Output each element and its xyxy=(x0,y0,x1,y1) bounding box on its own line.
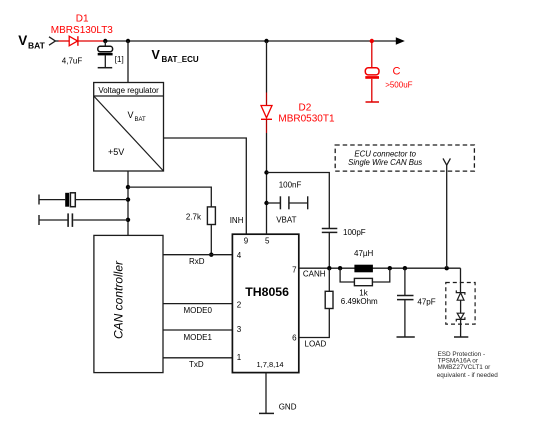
ground bar under ESD xyxy=(454,336,468,338)
svg-text:+5V: +5V xyxy=(108,147,124,157)
label node VBAT_ECU xyxy=(152,48,199,64)
svg-text:Voltage regulator: Voltage regulator xyxy=(98,86,159,95)
wire TH8056 to ground xyxy=(265,373,267,413)
svg-text:TxD: TxD xyxy=(189,360,204,369)
capacitor C_filter1 (polarized) xyxy=(65,193,128,207)
label regulator VBAT pin xyxy=(128,110,147,123)
junction dot VBAT chip node at 100nF xyxy=(264,201,268,205)
label RxD xyxy=(189,257,205,266)
resistor 1k parallel path xyxy=(340,268,354,282)
junction dot VBAT chip node upper xyxy=(264,170,268,174)
ground bar GND xyxy=(259,412,274,414)
wire regulator right output to INH xyxy=(164,138,247,234)
wire D2 to pin5 line xyxy=(266,119,268,234)
wire load resistor to LOAD pin xyxy=(299,309,330,338)
label D2 designator xyxy=(299,103,312,114)
wire CANH corner to ESD xyxy=(460,268,462,292)
capacitor C_filter2 left terminal xyxy=(39,215,68,225)
label GND xyxy=(279,403,297,412)
label D1 value MBRS130LT3 xyxy=(51,25,114,36)
capacitor C_filter1 left terminal xyxy=(39,195,65,205)
node VBAT port label xyxy=(18,33,45,50)
svg-text:MODE0: MODE0 xyxy=(184,306,213,315)
label C designator xyxy=(393,66,401,78)
label 1k value xyxy=(359,289,368,298)
svg-text:5: 5 xyxy=(265,237,270,246)
wire CANH to 47pF xyxy=(404,268,406,295)
dashed box ECU connector note xyxy=(335,145,474,171)
connector pin (antenna Y) xyxy=(443,158,450,165)
junction dot at D2 tap xyxy=(264,39,268,43)
capacitor 100nF xyxy=(267,196,308,209)
wire top rail VBAT_ECU xyxy=(104,40,397,42)
junction dot CANH at connector xyxy=(445,266,449,270)
svg-text:C: C xyxy=(393,66,401,78)
wire rail to voltage regulator xyxy=(127,41,129,83)
svg-text:D2: D2 xyxy=(299,103,312,114)
wire between zeners xyxy=(460,300,462,313)
IC U1 TH8056 box xyxy=(232,234,298,372)
svg-text:9: 9 xyxy=(244,237,249,246)
svg-text:Single Wire CAN Bus: Single Wire CAN Bus xyxy=(348,158,422,167)
pin number 3 xyxy=(237,325,242,334)
svg-text:2: 2 xyxy=(237,301,242,310)
svg-text:MMBZ27VCLT1 or: MMBZ27VCLT1 or xyxy=(438,364,492,371)
inductor 47uH xyxy=(354,265,373,273)
junction dot at regulator tap xyxy=(126,39,130,43)
junction dot cap2 branch xyxy=(126,218,130,222)
wire +5V to resistor 2.7k xyxy=(128,187,211,207)
label CANH pin name xyxy=(303,270,326,279)
zener diode ESD bottom xyxy=(456,313,465,321)
resistor 1k xyxy=(354,278,372,285)
wire regulator bottom +5V line xyxy=(127,171,129,235)
label 6.49kOhm xyxy=(341,297,378,306)
junction dot 2.7k branch xyxy=(126,185,130,189)
pin number 7 xyxy=(292,266,297,275)
label ESD protection note xyxy=(437,351,499,379)
svg-text:CAN controller: CAN controller xyxy=(112,260,126,339)
junction dot at 4.7uF tap xyxy=(103,39,107,43)
svg-text:100nF: 100nF xyxy=(279,181,302,190)
diode D1 xyxy=(69,36,78,46)
svg-text:TH8056: TH8056 xyxy=(245,285,289,299)
pin number 1 xyxy=(237,353,242,362)
capacitor C >500uF (red, polarized) xyxy=(365,41,379,102)
svg-text:MODE1: MODE1 xyxy=(184,333,213,342)
wire rail to D2 xyxy=(266,41,268,106)
label regulator +5V pin xyxy=(108,147,124,157)
label D1 designator xyxy=(76,14,89,25)
wire 1k to CANH right xyxy=(372,268,389,282)
junction dot CANH at 47pF xyxy=(403,266,407,270)
svg-text:6: 6 xyxy=(292,334,297,343)
junction dot CANH at load resistor xyxy=(327,266,331,270)
svg-text:4: 4 xyxy=(237,251,242,260)
svg-text:D1: D1 xyxy=(76,14,89,25)
label Voltage regulator title xyxy=(98,86,159,95)
pin number 6 xyxy=(292,334,297,343)
svg-text:>500uF: >500uF xyxy=(385,81,412,90)
pin number 4 xyxy=(237,251,242,260)
wire MODE0 xyxy=(163,303,232,305)
label 4,7uF value xyxy=(62,57,83,66)
input port chevron xyxy=(49,37,55,45)
svg-text:6.49kOhm: 6.49kOhm xyxy=(341,297,378,306)
junction dot RxD node xyxy=(209,253,213,257)
svg-text:100pF: 100pF xyxy=(343,228,366,237)
ground bar under 47pF xyxy=(397,336,415,338)
junction dot CANH right of inductor xyxy=(388,266,392,270)
dashed box ESD protection xyxy=(446,283,475,325)
pin numbers 1,7,8,14 xyxy=(256,360,283,369)
wire VBAT node to 100pF branch xyxy=(267,173,330,229)
label 2.7k value xyxy=(186,213,202,222)
junction dot CANH left of inductor xyxy=(338,266,342,270)
svg-text:7: 7 xyxy=(292,266,297,275)
wire CANH xyxy=(299,267,461,269)
svg-text:CANH: CANH xyxy=(303,270,326,279)
wire CANH to load resistor xyxy=(328,268,330,291)
wire 2.7k to RxD node xyxy=(210,225,212,255)
label 100pF value xyxy=(343,228,366,237)
svg-text:MBRS130LT3: MBRS130LT3 xyxy=(51,25,114,36)
label ECU connector text xyxy=(348,150,422,167)
label TxD xyxy=(189,360,204,369)
svg-text:V: V xyxy=(152,48,161,62)
label 47pF value xyxy=(417,298,435,307)
pin number 2 xyxy=(237,301,242,310)
wire RxD xyxy=(163,254,232,256)
svg-text:VBAT: VBAT xyxy=(276,216,296,225)
label TH8056 xyxy=(245,285,289,299)
wire TxD xyxy=(163,357,232,359)
junction dot cap1 branch xyxy=(126,197,130,201)
pin number 5 xyxy=(265,237,270,246)
wire zener to ground xyxy=(460,319,462,336)
diode D2 xyxy=(261,106,272,120)
label VBAT pin name xyxy=(276,216,296,225)
arrow head right end of rail xyxy=(396,37,405,44)
svg-text:GND: GND xyxy=(279,403,297,412)
pin number 9 xyxy=(244,237,249,246)
label 100nF value xyxy=(279,181,302,190)
label LOAD pin name xyxy=(305,340,327,349)
svg-text:equivalent - if needed: equivalent - if needed xyxy=(437,372,499,379)
svg-text:LOAD: LOAD xyxy=(305,340,327,349)
svg-text:47µH: 47µH xyxy=(354,249,374,258)
svg-text:V: V xyxy=(18,33,27,48)
label MODE1 xyxy=(184,333,213,342)
resistor 2.7k xyxy=(207,207,215,225)
CAN controller box xyxy=(94,235,163,372)
svg-text:BAT: BAT xyxy=(28,40,46,50)
zener diode ESD top xyxy=(456,290,465,300)
svg-text:MBR0530T1: MBR0530T1 xyxy=(278,114,335,125)
svg-text:RxD: RxD xyxy=(189,257,205,266)
wire MODE1 xyxy=(163,329,232,331)
resistor R_load xyxy=(325,291,333,308)
label CAN controller xyxy=(112,260,126,339)
label C value >500uF xyxy=(385,81,412,90)
svg-text:V: V xyxy=(128,110,134,120)
label MODE0 xyxy=(184,306,213,315)
capacitor C_filter2 xyxy=(68,213,128,227)
capacitor 47pF xyxy=(397,296,414,337)
svg-text:1,7,8,14: 1,7,8,14 xyxy=(256,360,283,369)
capacitor 100pF xyxy=(322,229,338,269)
wire chevron to D1 xyxy=(55,40,69,42)
junction dot at C tap (red) xyxy=(370,39,374,43)
capacitor 4,7uF (polarized) xyxy=(98,41,113,68)
svg-text:[1]: [1] xyxy=(115,55,124,64)
label INH xyxy=(230,216,244,225)
svg-text:4,7uF: 4,7uF xyxy=(62,57,83,66)
label D2 value MBR0530T1 xyxy=(278,114,335,125)
svg-text:BAT: BAT xyxy=(135,117,147,123)
label 47uH value xyxy=(354,249,374,258)
wire D1 to node VBAT_ECU xyxy=(79,40,105,42)
svg-text:47pF: 47pF xyxy=(417,298,435,307)
svg-text:INH: INH xyxy=(230,216,244,225)
svg-text:2.7k: 2.7k xyxy=(186,213,202,222)
voltage regulator U1 box xyxy=(94,83,164,172)
svg-text:3: 3 xyxy=(237,325,242,334)
svg-text:BAT_ECU: BAT_ECU xyxy=(162,55,199,64)
label [1] xyxy=(115,55,124,64)
svg-text:1: 1 xyxy=(237,353,242,362)
wire connector to CANH xyxy=(446,165,448,268)
